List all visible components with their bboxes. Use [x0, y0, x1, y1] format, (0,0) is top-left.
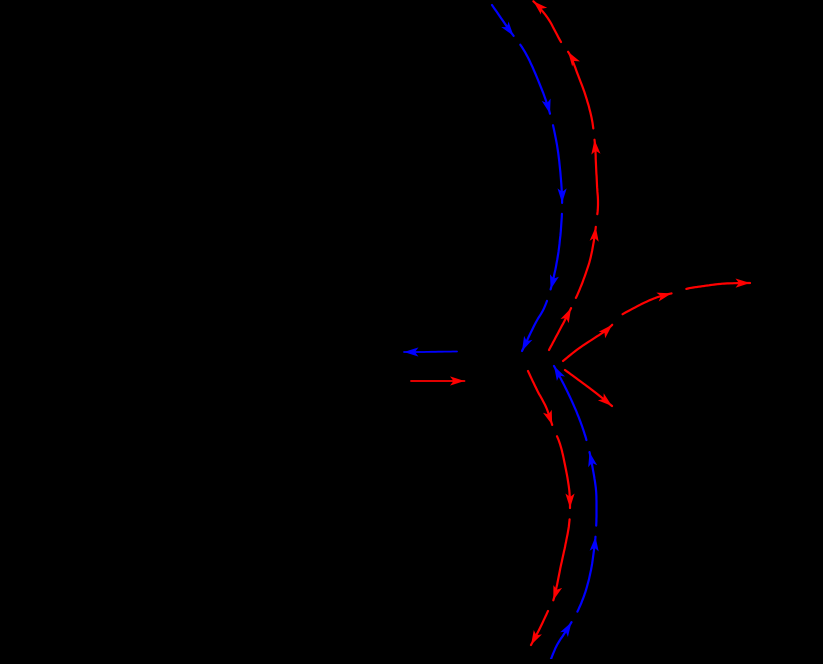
red trajectory: short straight ray down-right from the node	[565, 370, 612, 406]
blue trajectory: upper-left arc flowing down into the node	[492, 5, 567, 351]
blue trajectory: lower-right arc flowing up into the node	[551, 366, 599, 659]
red trajectory: lower-left arc flowing down away from the node	[528, 371, 575, 645]
blue trajectory: horizontal segment on axis pointing left	[404, 347, 457, 356]
red trajectory: upper-right arc flowing up away from the node	[533, 1, 600, 350]
red trajectory: horizontal segment on axis pointing right	[411, 376, 465, 385]
red trajectory: long ray curving right toward upper-right	[563, 279, 750, 362]
